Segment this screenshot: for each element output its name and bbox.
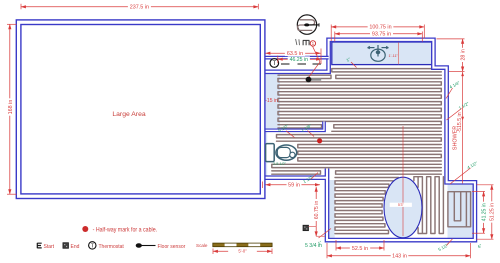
svg-text:-15 in: -15 in — [265, 98, 278, 104]
leader 4 1/2 — [450, 168, 471, 184]
half-way mark dot — [317, 138, 322, 143]
dimension 237.5 in — [21, 4, 258, 11]
label 4 1/2 — [466, 160, 479, 170]
shower text — [453, 126, 459, 150]
heating cable rows below toilet left of door jamb — [272, 171, 321, 174]
tub faucet icon — [368, 45, 389, 61]
svg-text:41.25 in: 41.25 in — [481, 203, 487, 221]
large area room walls (double line) — [19, 22, 263, 196]
floor sensor leader line — [309, 46, 321, 77]
heating cable bottom turn pair right — [334, 125, 442, 128]
dimension 59 in — [266, 182, 320, 189]
dimension 28 in — [460, 39, 467, 72]
extension ticks 52.5 — [335, 240, 337, 251]
heating cable serpentine upper bathroom section — [278, 79, 441, 125]
label 1 inch — [345, 56, 351, 62]
svg-text:63.5 in: 63.5 in — [287, 51, 303, 57]
svg-text:Thermostat: Thermostat — [99, 244, 125, 250]
svg-text:143 in: 143 in — [392, 254, 407, 260]
shower floor area — [448, 184, 474, 238]
extension ticks 143 — [326, 243, 328, 258]
legend end symbol — [63, 243, 69, 249]
label 1 1/8 — [300, 123, 313, 133]
svg-text:1'-11": 1'-11" — [389, 54, 399, 58]
leader to end mark — [309, 226, 317, 228]
legend start symbol — [37, 243, 41, 248]
strip width label — [265, 98, 278, 104]
tub platform divider line — [398, 43, 400, 65]
label 1 1/2 left — [302, 174, 315, 184]
leader 1 inch — [351, 62, 357, 68]
svg-text:46.25 in: 46.25 in — [290, 57, 309, 63]
label 1 1/2 right — [458, 101, 471, 111]
svg-text:52.5 in: 52.5 in — [352, 246, 368, 252]
shower heating cable serpentine — [448, 192, 471, 227]
leader 5 1/2 — [286, 131, 295, 138]
right vertical reference line — [462, 72, 464, 183]
leader 1 1/8 — [308, 131, 315, 137]
heating cable top turn pair left — [278, 75, 331, 78]
dimension 143 in — [327, 253, 470, 260]
legend scale bar — [213, 243, 272, 247]
svg-text:End: End — [71, 244, 80, 250]
label 5 3/4 in — [305, 243, 322, 249]
extension ticks top bathroom — [330, 25, 332, 42]
svg-text:93.75 in: 93.75 in — [372, 32, 391, 38]
legend half-way mark — [82, 226, 157, 234]
tub platform (unheated block with faucet icon) — [332, 42, 432, 65]
bathtub length label — [390, 203, 412, 207]
dimension 51.25 in — [489, 185, 496, 239]
heating cable row below divider right side — [332, 130, 442, 132]
label 4 1/4 — [449, 80, 462, 90]
dimension 63.5 in — [266, 50, 321, 57]
heating cable top turn pair right — [336, 75, 442, 78]
svg-text:- Half-way mark for a cable.: - Half-way mark for a cable. — [93, 228, 158, 234]
svg-text:2-5 1/2": 2-5 1/2" — [273, 162, 286, 166]
heating cable rows across alcove doorway — [277, 135, 442, 142]
legend start text — [44, 244, 55, 250]
cable number 1 badge — [310, 41, 315, 46]
legend thermostat text — [99, 244, 125, 250]
svg-text:60.75 in: 60.75 in — [314, 201, 320, 220]
heating cable bottom turn pair left — [278, 125, 322, 128]
leader 1 1/2 right — [447, 109, 462, 121]
svg-text:168 in: 168 in — [8, 100, 14, 115]
extension ticks 28 — [437, 38, 465, 40]
heating cable vertical serpentine right of bathtub — [414, 177, 444, 234]
svg-text:Start: Start — [44, 244, 55, 250]
dimension 100.75 in — [331, 24, 424, 31]
legend scale text — [196, 243, 208, 248]
leader 1 1/2 left — [311, 173, 318, 180]
extension ticks 237.5 — [20, 4, 22, 10]
legend scale dimension — [213, 249, 272, 255]
svg-text:5'3": 5'3" — [398, 203, 405, 207]
legend floor sensor text — [158, 244, 186, 250]
dimension 168 in — [7, 24, 14, 194]
svg-text:28 in: 28 in — [460, 49, 466, 60]
leader 4 1/4 — [446, 88, 453, 99]
label 1 inch bottom-left — [317, 239, 323, 245]
heating cable rows right of toilet tank — [298, 145, 442, 148]
svg-text:59 in: 59 in — [288, 183, 300, 189]
extension tick 59 — [261, 182, 263, 189]
bathtub centerline — [402, 126, 404, 236]
tub platform width label — [389, 54, 399, 58]
svg-text:T: T — [272, 61, 276, 67]
heating cable serpentine lower-left zone beside bathtub — [335, 178, 398, 234]
dimension 41.25 in — [481, 192, 488, 234]
toilet width label — [273, 162, 286, 166]
svg-text:-515.5 in: -515.5 in — [457, 112, 463, 132]
label 6 inch — [477, 243, 483, 249]
label 5 1/2 — [277, 123, 290, 133]
legend floor sensor symbol — [136, 243, 156, 248]
extension ticks 63.5/46.25 — [320, 49, 322, 65]
floor sensor — [306, 77, 322, 83]
dimension 52.5 in — [336, 245, 384, 252]
heating cable rows right of toilet bowl — [298, 151, 442, 161]
cable start mark — [296, 39, 310, 45]
legend thermostat symbol — [89, 242, 96, 250]
heating cable rows below tub platform — [332, 69, 442, 72]
thermostat lead wires — [281, 63, 321, 65]
svg-text:Large Area: Large Area — [112, 111, 145, 118]
extension ticks right — [477, 184, 494, 186]
svg-text:100.75 in: 100.75 in — [369, 25, 391, 31]
label 5 1/2 bottom — [437, 242, 450, 252]
heating cable rows below toilet right of door jamb — [336, 171, 442, 174]
svg-text:237.5 in: 237.5 in — [130, 5, 149, 11]
dimension 46.25 in — [278, 56, 321, 63]
dimension 60.75 in — [313, 187, 320, 237]
svg-text:51.25 in: 51.25 in — [490, 203, 496, 221]
legend end text — [71, 244, 80, 250]
leader 5 3/4 diagonal — [319, 229, 332, 239]
cable end mark — [303, 225, 309, 231]
large area label — [112, 111, 145, 118]
dimension 93.75 in — [335, 31, 423, 38]
extension ticks 168 — [7, 23, 17, 25]
toilet — [266, 144, 297, 162]
bathtub (ellipse) — [384, 177, 422, 238]
bathroom walls (double line) — [262, 40, 475, 240]
svg-text:Scale: Scale — [196, 243, 208, 248]
svg-text:Floor sensor: Floor sensor — [158, 244, 186, 250]
unheated margin strip inside lower-left bathroom wall — [329, 180, 334, 238]
leader 5 1/2 bottom — [447, 239, 453, 246]
thermostat symbol — [270, 59, 279, 68]
svg-text:5'-0": 5'-0" — [238, 249, 247, 254]
interior partition walls (double line) — [262, 58, 329, 131]
unheated margin strip left of upper bathroom section — [264, 74, 280, 129]
heating cable rows below toilet — [272, 164, 442, 167]
unheated margin strip behind toilet — [264, 132, 268, 176]
cable spool detail icon — [297, 15, 319, 34]
